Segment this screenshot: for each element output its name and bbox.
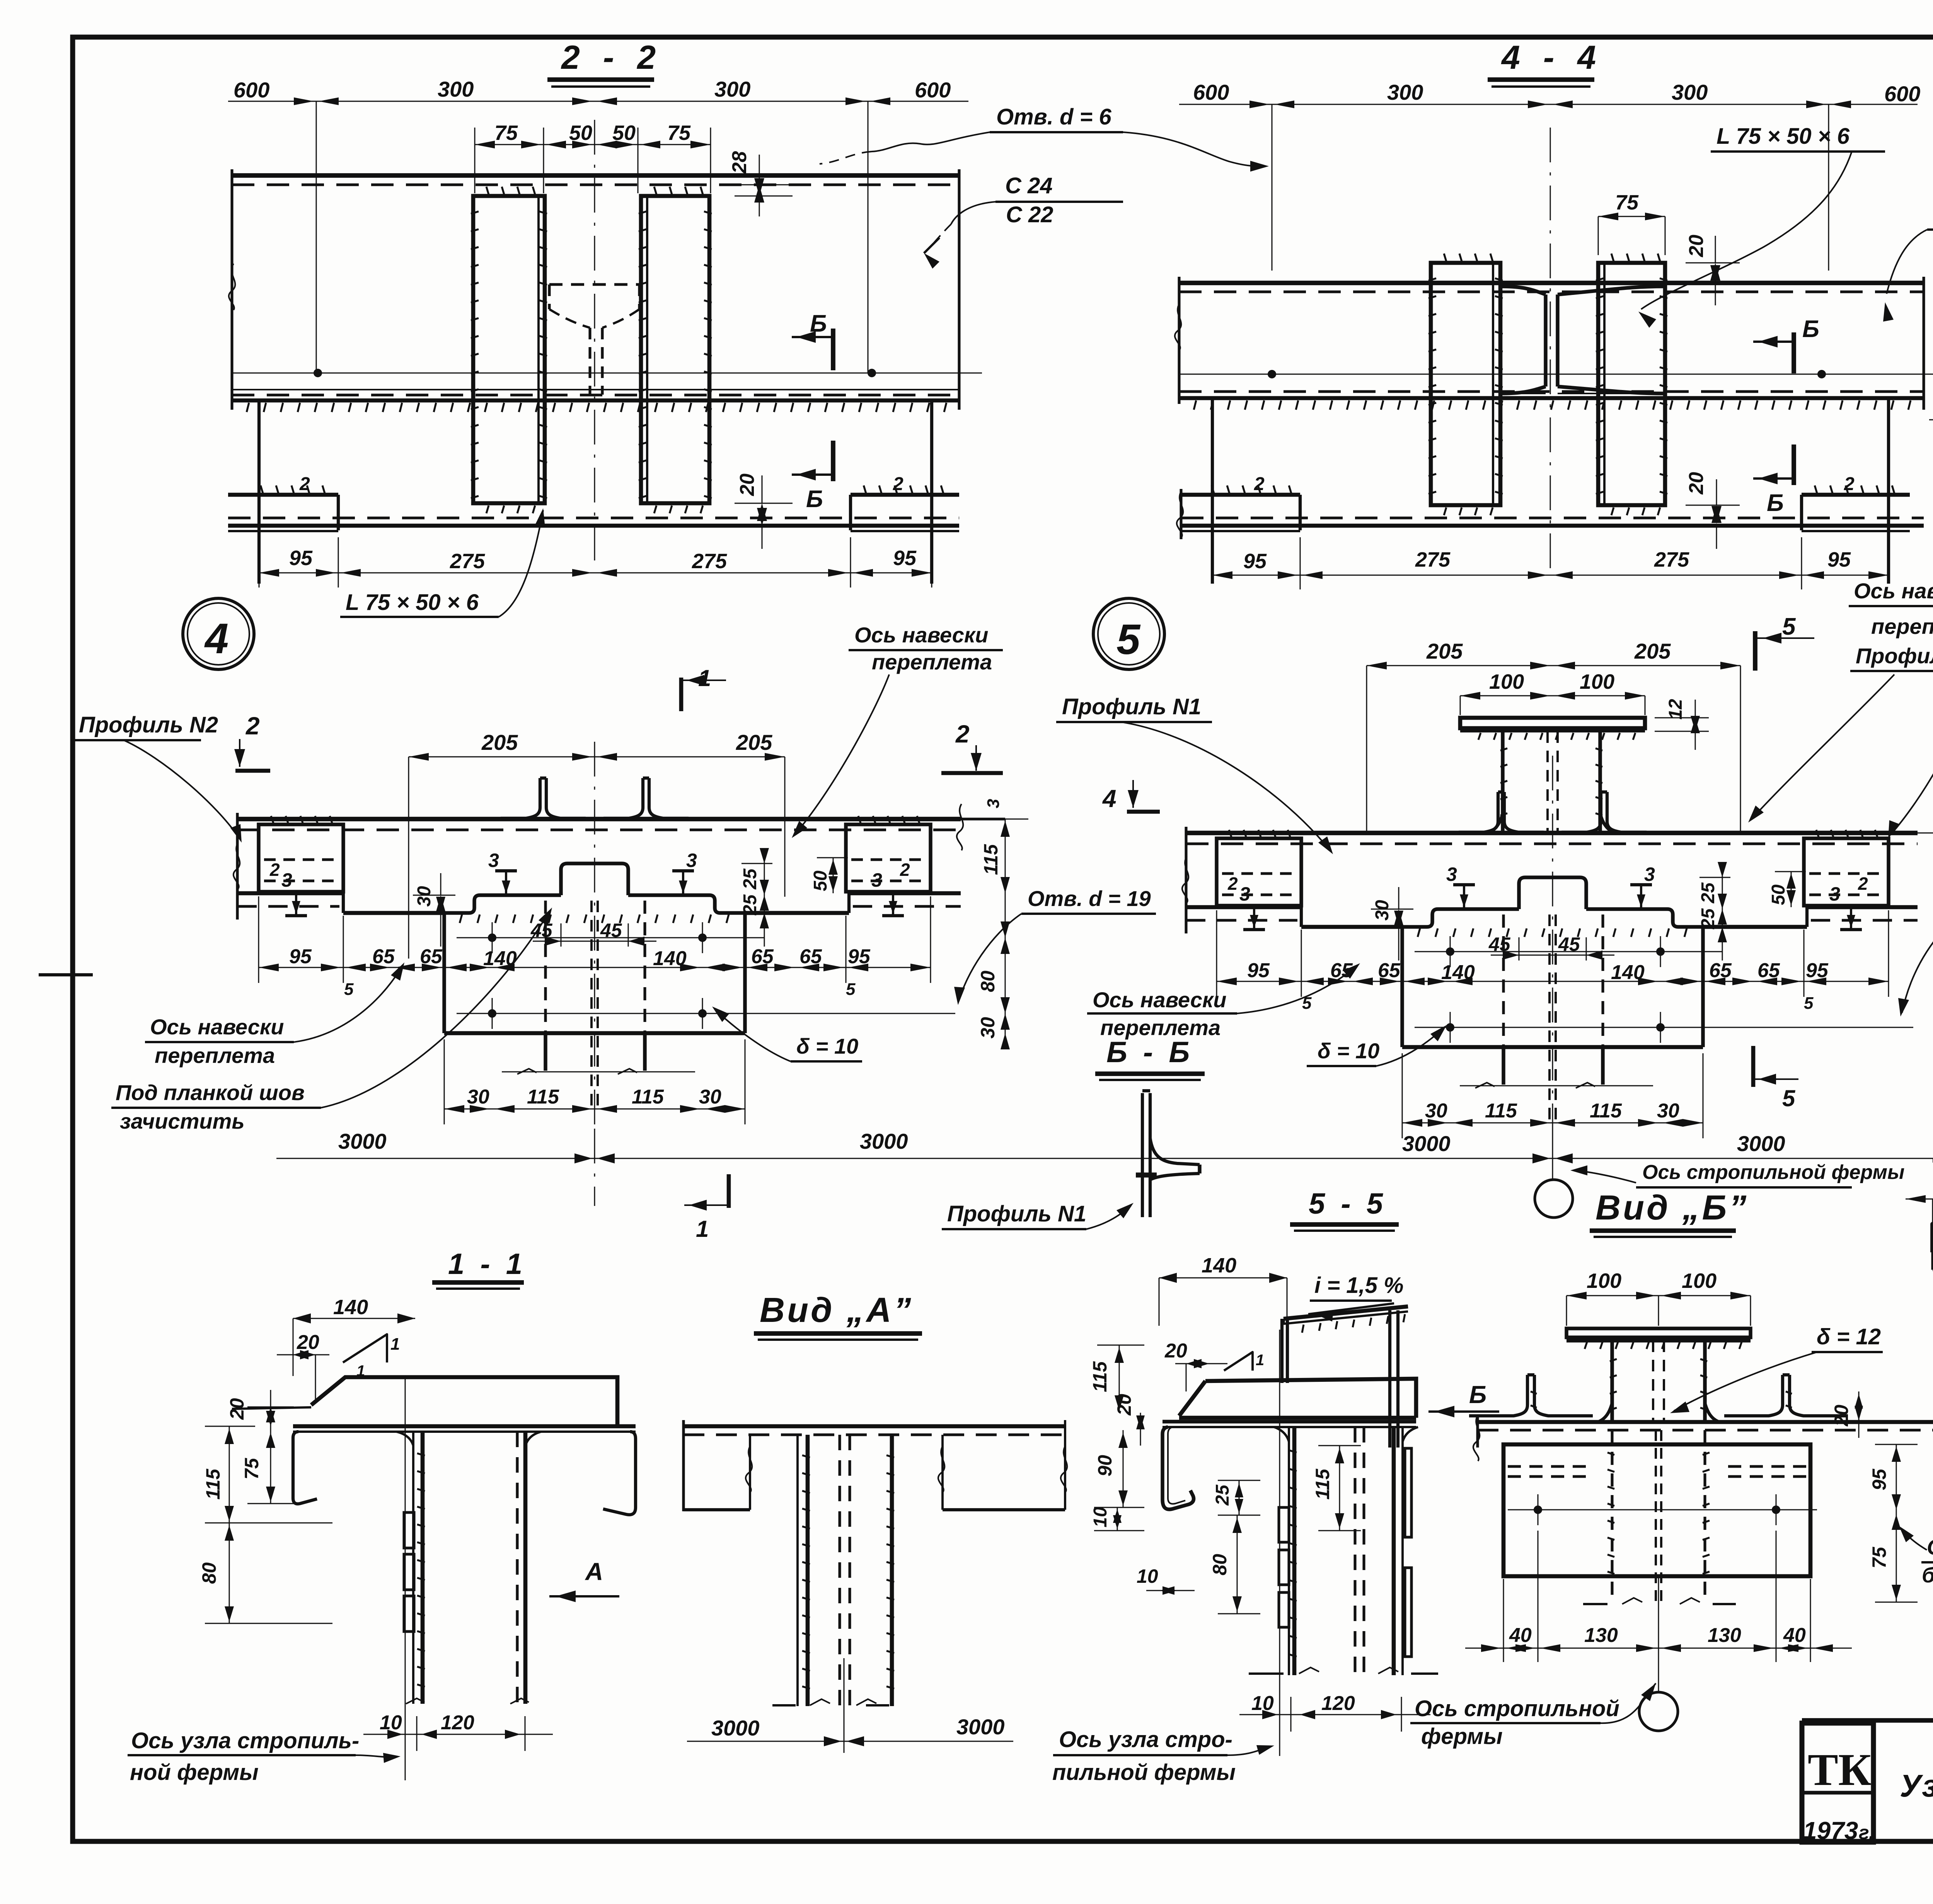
view A vertical members [796, 1435, 799, 1706]
node5 C-channel right weld flag 3 [1850, 906, 1852, 930]
svg-text:1: 1 [696, 1216, 709, 1242]
svg-text:30: 30 [699, 1086, 721, 1108]
3-3 dims 30-70-30 [1906, 1199, 1933, 1200]
svg-text:переплета: переплета [872, 650, 992, 674]
svg-text:пильной фермы: пильной фермы [1052, 1760, 1236, 1785]
svg-text:120: 120 [441, 1712, 474, 1734]
svg-text:3000: 3000 [956, 1715, 1005, 1739]
svg-text:80: 80 [977, 971, 999, 992]
4-4 beam bottom lines [1179, 390, 1924, 393]
svg-text:115: 115 [1312, 1468, 1333, 1500]
svg-text:Отв. d = 6: Отв. d = 6 [996, 104, 1111, 129]
1-1 vertical frame member left pair [412, 1432, 414, 1704]
svg-text:2: 2 [1254, 474, 1265, 494]
svg-text:3: 3 [1829, 883, 1840, 905]
svg-text:20: 20 [1685, 235, 1708, 257]
svg-text:Б: Б [1802, 316, 1819, 342]
svg-text:Ось стропильной: Ось стропильной [1415, 1696, 1619, 1721]
svg-text:25: 25 [740, 894, 760, 916]
2-2 top dimension row 600-300-300-600 [228, 101, 968, 102]
svg-text:переплета: переплета [155, 1043, 275, 1068]
shared dim line 3000-3000-3000-3000 [276, 1158, 1933, 1159]
svg-text:3000: 3000 [1737, 1131, 1785, 1156]
svg-text:С 22: С 22 [1006, 202, 1053, 227]
4-4 bottom dim row 95-275-275-95 [1212, 575, 1889, 576]
svg-text:75: 75 [1615, 191, 1639, 214]
5-5 vertical members [1288, 1427, 1290, 1675]
svg-text:5: 5 [344, 980, 354, 999]
view B gusset plate [1503, 1444, 1810, 1576]
svg-text:Ось навески: Ось навески [1854, 579, 1933, 603]
svg-text:3000: 3000 [711, 1716, 760, 1740]
view A left lower outline with break [684, 1508, 750, 1511]
svg-text:115: 115 [1590, 1100, 1622, 1122]
1-1 dim 140 [293, 1318, 415, 1319]
5-5 weld plates [1279, 1507, 1289, 1542]
4-4 dim 75 over right stiffener [1598, 216, 1665, 217]
node5 gusset plate body [1400, 927, 1404, 1047]
node4 C-channel right weld flag 3 [892, 892, 894, 916]
5-5 hidden dashed verticals [1353, 1427, 1356, 1675]
4-4 center axis dash-dot [1550, 128, 1551, 572]
svg-text:12: 12 [1665, 699, 1686, 720]
node4 band bottom edge lines [237, 891, 343, 896]
svg-text:Б: Б [1469, 1381, 1486, 1408]
svg-text:5 - 5: 5 - 5 [1309, 1187, 1387, 1220]
svg-text:95: 95 [289, 945, 312, 968]
node4 center axis dash-dot [594, 742, 595, 1124]
svg-text:115: 115 [1089, 1361, 1111, 1392]
svg-text:Ось навески: Ось навески [854, 623, 988, 647]
svg-text:2: 2 [1844, 474, 1855, 494]
svg-text:Ось узла стро-: Ось узла стро- [1059, 1727, 1232, 1752]
4-4 bottom chord strip left block [1181, 493, 1300, 497]
5-5 flange band under cap [1163, 1420, 1416, 1423]
svg-text:Профиль N2: Профиль N2 [1856, 644, 1933, 668]
svg-text:205: 205 [1634, 639, 1671, 663]
title block TK box [1802, 1723, 1873, 1842]
svg-text:45: 45 [1488, 933, 1511, 955]
svg-text:1: 1 [1256, 1352, 1264, 1369]
svg-text:20: 20 [1113, 1394, 1135, 1416]
2-2 beam bottom lines [232, 389, 959, 390]
svg-text:1: 1 [390, 1335, 400, 1354]
left margin registration mark [39, 973, 93, 976]
svg-text:100: 100 [1682, 1269, 1717, 1293]
1-1 break marks bottom [406, 1698, 424, 1704]
node5 truss axis circle [1535, 1180, 1573, 1218]
node4 C-channel section left [259, 824, 343, 892]
2-2 bottom chord strip right block [851, 493, 959, 497]
view B dashed verticals [1611, 1430, 1613, 1596]
node4 C-channel left weld flag 3 [295, 892, 297, 916]
node4 dims 45 45 under hump [561, 923, 562, 947]
1-1 weld plates on left member [404, 1512, 414, 1548]
svg-text:4 - 4: 4 - 4 [1501, 39, 1603, 76]
svg-text:300: 300 [714, 77, 750, 101]
node4 section marker 1 bottom [727, 1174, 731, 1208]
svg-text:3: 3 [1446, 863, 1457, 885]
svg-text:5: 5 [1782, 613, 1796, 640]
svg-text:г.: г. [1859, 1822, 1874, 1843]
svg-text:переплета: переплета [1871, 614, 1933, 639]
node5 weld flags 3 on plate shoulders [1463, 885, 1465, 909]
node4 angle clips on band [501, 778, 540, 818]
node5 C-channel left weld flag 3 [1253, 906, 1255, 930]
2-2 vertical angle stiffener left (L75x50x6) [473, 196, 545, 503]
node5 solid stubs below plate [1502, 1047, 1505, 1085]
node4 bottom dim row 30-115-115-30 [444, 1109, 745, 1110]
node4 weld flags 3 on plate shoulders [505, 871, 507, 895]
node5 angle clips on band [1459, 792, 1498, 832]
svg-text:115: 115 [980, 844, 1002, 875]
node4 right vertical dims 115-80-30 [1005, 819, 1006, 1043]
svg-text:Ось навески: Ось навески [150, 1015, 284, 1039]
node5 band left break [1185, 827, 1187, 933]
1-1 cap profile N1 hat [311, 1377, 617, 1426]
svg-text:3: 3 [488, 850, 499, 871]
node 4 balloon circle [183, 598, 254, 669]
svg-text:25: 25 [740, 868, 760, 890]
3-3 channel cutout section [1933, 1224, 1933, 1252]
svg-text:i = 1,5 %: i = 1,5 % [1314, 1273, 1404, 1298]
svg-text:75: 75 [1868, 1546, 1890, 1569]
2-2 bottom chord strip [228, 493, 338, 497]
svg-text:65: 65 [751, 945, 774, 968]
svg-text:600: 600 [234, 78, 269, 102]
svg-text:120: 120 [1321, 1692, 1355, 1715]
svg-text:275: 275 [1415, 548, 1451, 571]
node5 gusset hump tab [1519, 877, 1586, 909]
view B axis line below [1658, 1576, 1659, 1692]
svg-text:30: 30 [1657, 1100, 1679, 1122]
svg-text:L 75 × 50 × 6: L 75 × 50 × 6 [346, 590, 479, 615]
svg-text:95: 95 [1868, 1468, 1890, 1490]
2-2 hidden tee profile dashed outline [549, 283, 639, 286]
svg-text:80: 80 [198, 1562, 220, 1584]
svg-text:δ = 10: δ = 10 [796, 1034, 858, 1058]
svg-text:600: 600 [915, 78, 951, 102]
svg-text:3000: 3000 [1402, 1131, 1451, 1156]
svg-text:115: 115 [1485, 1100, 1517, 1122]
1-1 slope triangle [343, 1334, 387, 1362]
view B hidden dashed rows in plate [1508, 1465, 1589, 1468]
node5 dims 45 45 under hump [1519, 937, 1520, 961]
svg-text:20: 20 [1164, 1340, 1187, 1362]
svg-text:205: 205 [1426, 639, 1463, 663]
node5 bolt holes with axes [1415, 951, 1722, 952]
svg-text:А: А [585, 1558, 603, 1586]
svg-text:25: 25 [1698, 882, 1718, 904]
svg-text:2 - 2: 2 - 2 [561, 39, 663, 76]
5-5 sloped member end verticals [1280, 1319, 1284, 1383]
svg-text:2: 2 [245, 712, 260, 740]
4-4 top chord beam band [1179, 281, 1924, 285]
4-4 vertical stiffener left [1431, 263, 1500, 505]
svg-text:5: 5 [1117, 616, 1141, 663]
node5 C-channel section right [1804, 838, 1889, 906]
4-4 support lines below beam [1211, 398, 1214, 584]
node4 gusset plate body [442, 913, 446, 1033]
svg-text:3: 3 [871, 869, 882, 891]
svg-text:205: 205 [481, 730, 518, 754]
view B break marks below plate [1583, 1603, 1607, 1605]
view A bottom dim 3000 3000 [687, 1741, 1013, 1742]
svg-text:40: 40 [1783, 1624, 1806, 1647]
svg-text:2: 2 [1227, 874, 1238, 894]
svg-text:Вид „А”: Вид „А” [760, 1291, 914, 1330]
svg-text:Узлы 4 и 5 фонарных пан: Узлы 4 и 5 фонарных панелей [1900, 1768, 1933, 1804]
5-5 break marks [1249, 1672, 1284, 1675]
svg-text:25: 25 [1212, 1484, 1233, 1506]
view B bolt dots [1508, 1509, 1817, 1511]
4-4 top dimension row 600-300-300-600 [1179, 104, 1918, 105]
svg-text:2: 2 [955, 720, 970, 748]
svg-text:10: 10 [380, 1712, 402, 1734]
node4 solid stubs below plate [544, 1033, 547, 1071]
svg-text:600: 600 [1193, 80, 1229, 104]
svg-text:275: 275 [692, 550, 727, 573]
node5 center axis dash-dot [1552, 756, 1553, 1138]
svg-text:65: 65 [1709, 959, 1732, 982]
svg-text:3: 3 [1644, 863, 1655, 885]
svg-text:3: 3 [281, 869, 292, 891]
2-2 right support line below [930, 400, 933, 584]
svg-text:3: 3 [1239, 883, 1250, 905]
2-2 top chord beam band [232, 173, 959, 178]
4-4 crossing I-beam C12 elevation [1500, 286, 1546, 295]
svg-text:100: 100 [1580, 670, 1614, 693]
node4 bolt holes with axes [457, 937, 764, 938]
title block top line [1802, 1718, 1933, 1723]
svg-text:65: 65 [420, 945, 443, 968]
2-2 beam axis line [232, 373, 982, 374]
svg-text:65: 65 [1757, 959, 1780, 982]
node5 top chord band [1186, 831, 1918, 835]
svg-text:95: 95 [1243, 550, 1267, 573]
svg-text:300: 300 [438, 77, 474, 101]
svg-text:3: 3 [686, 850, 697, 871]
svg-text:30: 30 [1425, 1100, 1447, 1122]
svg-text:2: 2 [893, 474, 903, 494]
view B angle clips on band [1469, 1375, 1527, 1416]
svg-text:2: 2 [269, 860, 280, 880]
view A top band [684, 1424, 1065, 1429]
2-2 left support line below [257, 400, 261, 584]
svg-text:5: 5 [846, 980, 856, 999]
svg-text:140: 140 [333, 1296, 368, 1319]
svg-text:95: 95 [893, 547, 917, 570]
svg-text:ТК: ТК [1808, 1744, 1871, 1795]
svg-text:ной фермы: ной фермы [130, 1760, 259, 1785]
view B bottom dims 40-130-130-40 [1465, 1648, 1852, 1649]
node5 bottom dim row 30-115-115-30 [1402, 1122, 1703, 1124]
svg-text:L 75 × 50 × 6: L 75 × 50 × 6 [1717, 124, 1850, 149]
svg-text:600: 600 [1884, 82, 1920, 106]
node5 section marker 5 top right [1753, 631, 1757, 671]
svg-text:90: 90 [1094, 1455, 1116, 1477]
node4 top chord band [237, 817, 961, 821]
5-5 profile N1 hat cap [1205, 1379, 1416, 1418]
node5 column I-profile elevation [1501, 731, 1504, 833]
svg-text:2: 2 [1858, 874, 1868, 894]
2-2 section marker B upper [831, 329, 835, 370]
svg-text:Б: Б [1767, 490, 1784, 516]
svg-text:4: 4 [1102, 785, 1117, 812]
view B dims 100 100 [1567, 1295, 1751, 1296]
svg-text:20: 20 [1831, 1405, 1852, 1427]
svg-text:Отв. d = 19: Отв. d = 19 [1028, 886, 1151, 911]
svg-text:3: 3 [984, 799, 1003, 808]
svg-text:Профиль N1: Профиль N1 [1062, 694, 1201, 719]
4-4 bottom chord strip right block [1802, 493, 1910, 497]
svg-text:Б: Б [806, 486, 823, 513]
svg-text:130: 130 [1708, 1624, 1741, 1647]
svg-text:Профиль N1: Профиль N1 [947, 1201, 1086, 1226]
4-4 section marker B lower [1792, 444, 1796, 485]
svg-text:300: 300 [1672, 80, 1708, 104]
svg-text:Б: Б [810, 310, 827, 337]
svg-text:65: 65 [799, 945, 822, 968]
2-2 dimension row 75-50-50-75 [475, 144, 711, 145]
node5 hidden profile dashed verticals [1502, 915, 1505, 1085]
2-2 section marker B lower [831, 441, 835, 481]
svg-text:Профиль N2: Профиль N2 [79, 712, 218, 737]
1-1 axis line [405, 1376, 406, 1780]
svg-text:Под планкой шов: Под планкой шов [116, 1080, 305, 1105]
svg-text:30: 30 [414, 886, 435, 907]
2-2 beam right end edge [958, 169, 960, 410]
svg-text:115: 115 [202, 1468, 224, 1500]
svg-text:Отв. d = 23 под: Отв. d = 23 под [1927, 1535, 1933, 1559]
node4 gusset hump tab [561, 863, 628, 895]
svg-text:50: 50 [569, 121, 592, 145]
svg-text:50: 50 [1768, 884, 1789, 905]
svg-text:3000: 3000 [338, 1129, 387, 1153]
2-2 bottom dim row 95-275-275-95 [259, 572, 932, 574]
svg-text:40: 40 [1509, 1624, 1532, 1647]
svg-text:50: 50 [612, 121, 636, 145]
node4 dim row 205-205 [409, 756, 785, 758]
node5 band bottom edge lines [1186, 905, 1301, 909]
node5 dim row 205-205 [1367, 665, 1740, 666]
node4 gusset plate top edges [444, 895, 561, 913]
svg-text:10: 10 [1090, 1507, 1111, 1528]
svg-text:1973: 1973 [1803, 1817, 1858, 1844]
svg-text:Б - Б: Б - Б [1106, 1036, 1193, 1069]
B-B profile N1 tee section [1141, 1093, 1144, 1217]
svg-text:50: 50 [810, 870, 831, 891]
view B band [1478, 1420, 1933, 1424]
svg-text:95: 95 [1247, 959, 1270, 982]
svg-text:75: 75 [241, 1458, 263, 1480]
svg-text:65: 65 [372, 945, 395, 968]
svg-text:25: 25 [1698, 908, 1718, 930]
svg-text:5: 5 [1804, 994, 1814, 1013]
5-5 profile N2 hook section [1163, 1427, 1194, 1509]
svg-text:Ось узла стропиль-: Ось узла стропиль- [131, 1728, 359, 1753]
svg-text:4: 4 [204, 615, 228, 662]
svg-text:45: 45 [1558, 933, 1580, 955]
node5 dim row 100-100 [1460, 695, 1645, 697]
svg-text:115: 115 [527, 1086, 559, 1108]
svg-text:95: 95 [848, 945, 871, 968]
2-2 center axis dash-dot [594, 120, 595, 560]
svg-text:зачистить: зачистить [120, 1109, 245, 1133]
svg-text:140: 140 [1202, 1254, 1236, 1277]
svg-text:фермы: фермы [1421, 1724, 1503, 1749]
svg-text:Ось стропильной фермы: Ось стропильной фермы [1642, 1161, 1904, 1184]
view B top plate [1567, 1328, 1751, 1337]
balloon circle node 5 [1093, 598, 1164, 669]
svg-text:Вид „Б”: Вид „Б” [1595, 1189, 1749, 1227]
small arrow near 2-2 beam [924, 253, 939, 269]
view A break marks [772, 1704, 796, 1706]
node5 top plate [1460, 718, 1645, 728]
svg-text:300: 300 [1387, 80, 1423, 104]
2-2 vertical angle stiffener right (L75x50x6) [641, 196, 709, 503]
svg-text:С 24: С 24 [1005, 173, 1053, 198]
1-1 flange band [293, 1424, 636, 1429]
svg-text:75: 75 [667, 121, 691, 145]
svg-text:130: 130 [1584, 1624, 1618, 1647]
5-5 axis line [1279, 1330, 1280, 1756]
view A right lower outline with break [943, 1508, 1065, 1511]
svg-text:1 - 1: 1 - 1 [448, 1248, 526, 1281]
svg-text:20: 20 [1685, 472, 1708, 495]
node5 section marker 5 bottom right [1751, 1046, 1756, 1087]
svg-text:Ось навески: Ось навески [1093, 988, 1226, 1012]
node5 main dim row 95-65-65-140-140-65-65-95 [1217, 981, 1889, 982]
svg-text:30: 30 [977, 1017, 999, 1039]
svg-text:100: 100 [1587, 1269, 1621, 1293]
svg-text:80: 80 [1209, 1554, 1231, 1575]
svg-text:95: 95 [289, 547, 313, 570]
svg-text:30: 30 [467, 1086, 489, 1108]
svg-text:45: 45 [600, 920, 622, 941]
svg-text:95: 95 [1806, 959, 1829, 982]
5-5 right angle clips [1405, 1448, 1411, 1537]
4-4 section marker B upper [1792, 332, 1796, 373]
view B column [1610, 1340, 1614, 1422]
svg-text:2: 2 [299, 474, 310, 494]
svg-text:275: 275 [450, 550, 485, 573]
svg-text:20: 20 [297, 1331, 319, 1354]
1-1 left hook of profile N2 [293, 1432, 317, 1504]
svg-text:115: 115 [632, 1086, 664, 1108]
1-1 right hook [603, 1432, 636, 1515]
4-4 beam axis line [1179, 374, 1933, 375]
svg-text:2: 2 [900, 860, 910, 880]
node4 band left break [236, 813, 239, 920]
5-5 slope triangle small [1224, 1352, 1253, 1371]
5-5 dim 140 [1159, 1277, 1287, 1279]
svg-text:δ = 12: δ = 12 [1817, 1324, 1881, 1349]
4-4 vertical stiffener right [1598, 263, 1665, 505]
svg-text:28: 28 [728, 151, 751, 174]
2-2 beam left break edge [230, 169, 233, 410]
svg-text:3000: 3000 [860, 1129, 908, 1153]
svg-text:65: 65 [1378, 959, 1401, 982]
svg-text:275: 275 [1654, 548, 1689, 571]
svg-text:20: 20 [736, 473, 759, 496]
node4 hidden profile dashed verticals [544, 901, 547, 1071]
svg-text:болты М20: болты М20 [1922, 1563, 1933, 1587]
node4 main dim row 95-65-65-140-140-65-65-95 [259, 967, 931, 968]
node5 gusset plate top edges [1402, 909, 1519, 927]
svg-text:75: 75 [494, 121, 518, 145]
svg-text:5: 5 [1782, 1085, 1796, 1111]
